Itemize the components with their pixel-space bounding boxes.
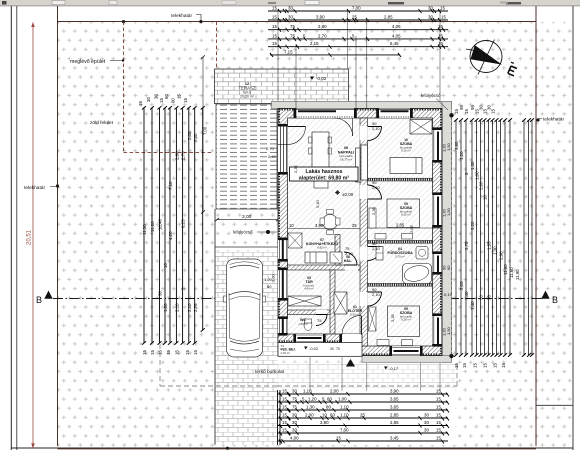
svg-text:10,40: 10,40 [158,218,163,230]
svg-text:4,00: 4,00 [290,436,299,441]
svg-text:-0,02: -0,02 [316,76,327,81]
toolbar strip [0,0,580,6]
window right wall szoba2 [433,192,443,227]
svg-text:7,00: 7,00 [352,6,361,11]
svg-text:4,05: 4,05 [392,33,401,38]
svg-text:3,65: 3,65 [390,397,399,402]
svg-text:2,00: 2,00 [330,389,339,394]
section line B-B [53,298,542,300]
svg-text:lefolyócső: lefolyócső [233,230,253,235]
paper border right [572,6,574,450]
svg-text:7,10: 7,10 [168,181,173,190]
svg-text:2,85: 2,85 [390,413,399,418]
bottom dim ticks [279,393,449,444]
level marker 0,00 [335,190,354,197]
svg-text:2,40: 2,40 [268,154,277,159]
svg-text:30: 30 [288,6,293,11]
svg-text:60: 60 [267,284,272,289]
svg-text:20,51: 20,51 [27,229,33,245]
red property dim line 20,51 [31,22,35,448]
svg-text:15: 15 [272,24,277,29]
interior dim row nappali [288,228,361,230]
svg-text:2,10: 2,10 [372,246,381,251]
svg-text:30: 30 [487,295,492,300]
svg-text:3,90: 3,90 [320,420,329,425]
svg-text:2,10: 2,10 [372,126,381,131]
interior wall konyha/hal vertical [335,235,340,266]
svg-text:5,40: 5,40 [315,199,320,208]
svg-text:2,70: 2,70 [318,33,327,38]
svg-text:60: 60 [164,94,169,99]
telekhatar top boundary [58,21,537,23]
svg-text:4,20: 4,20 [168,231,173,240]
svg-text:3,90: 3,90 [316,15,325,20]
door szoba2 [368,185,382,199]
svg-text:15: 15 [166,350,171,355]
telekhatar right boundary [535,6,537,446]
door arcs interior [316,127,382,326]
svg-text:30: 30 [154,94,159,99]
svg-text:30: 30 [158,291,163,296]
svg-text:15: 15 [185,350,190,355]
svg-text:15: 15 [454,363,459,368]
svg-text:2,00: 2,00 [187,131,192,140]
svg-text:telekhatár: telekhatár [543,117,564,123]
window left wall tar [278,268,288,301]
svg-text:1,50 m²: 1,50 m² [298,322,308,326]
lakas hasznos label box [290,167,359,181]
svg-text:15: 15 [436,436,441,441]
wall pocket nappali/szoba1 [361,145,368,180]
dimension ticks [282,9,434,443]
wardrobe szoba3 [369,307,377,331]
svg-text:2,10: 2,10 [372,292,381,297]
svg-text:11,00: 11,00 [503,264,508,275]
bed szoba3 [388,306,420,337]
paving boundary dashed [160,344,457,386]
door wc [316,315,327,326]
svg-text:15: 15 [272,6,277,11]
bathtub [403,264,432,284]
terrace level marker [310,76,327,81]
eaves band top [272,101,452,108]
svg-text:15: 15 [282,397,287,402]
bottom border [11,447,573,449]
svg-text:meglévő épület: meglévő épület [70,59,106,65]
bottom extension lines [310,357,440,391]
paper border line left 1 [10,6,12,450]
svg-text:térkő burkolat: térkő burkolat [255,369,285,375]
eaves band right [442,101,452,362]
svg-text:1,10: 1,10 [340,405,349,410]
svg-text:7,00: 7,00 [203,126,208,135]
svg-text:2,85: 2,85 [409,224,414,233]
svg-text:15: 15 [436,413,441,418]
window right wall szoba3 [433,313,443,346]
svg-text:3,45: 3,45 [390,436,399,441]
eaves band bottom [362,356,452,363]
svg-text:lefolyócső: lefolyócső [421,93,441,98]
svg-text:15: 15 [150,350,155,355]
right dimension block vertical lines [456,120,532,355]
svg-text:15: 15 [464,109,469,114]
svg-text:30: 30 [424,420,429,425]
svg-text:2,35: 2,35 [293,164,298,173]
svg-text:15: 15 [174,350,179,355]
svg-text:2,10: 2,10 [187,303,192,312]
svg-text:15: 15 [436,420,441,425]
bottom dimension block background [278,388,456,445]
left dim arrows top [142,106,205,345]
svg-text:4,05: 4,05 [392,24,401,29]
interior wall tar/eloter vertical [330,270,335,346]
svg-text:15: 15 [282,420,287,425]
svg-text:1,00: 1,00 [475,171,480,180]
window bottom wall szoba3 [389,346,422,356]
svg-text:7,00: 7,00 [340,428,349,433]
bottom dimension block [278,390,449,445]
desk szoba2 [369,208,376,228]
interior wall tar/wc [288,310,331,315]
door furdo [368,247,382,261]
svg-text:30: 30 [292,420,297,425]
svg-text:15: 15 [193,350,198,355]
svg-text:zöld felület: zöld felület [90,120,114,126]
svg-text:0,17: 0,17 [444,292,453,297]
top dim ticks [270,9,445,57]
svg-text:telekhatár: telekhatár [24,185,45,191]
svg-text:1,20: 1,20 [459,151,464,160]
svg-text:5,45: 5,45 [390,41,399,46]
svg-text:1,10: 1,10 [340,413,349,418]
boundary marker dots [56,20,540,450]
svg-text:11,60: 11,60 [509,267,514,278]
svg-text:2,85: 2,85 [384,15,393,20]
svg-text:15: 15 [282,413,287,418]
svg-text:15: 15 [491,109,496,114]
svg-text:2,85: 2,85 [396,223,405,228]
svg-text:1,20: 1,20 [308,397,317,402]
svg-text:10: 10 [322,413,327,418]
svg-text:60: 60 [446,265,451,270]
svg-text:15: 15 [177,94,182,99]
svg-text:1,00: 1,00 [338,397,347,402]
door labels [293,121,414,323]
telekhatar left boundary [57,6,59,446]
svg-text:15: 15 [462,363,467,368]
wardrobe szoba1 [410,120,432,135]
svg-text:15: 15 [501,363,506,368]
meglevo epulet dashed outline [124,22,217,153]
svg-text:2,15: 2,15 [310,41,319,46]
south wall left section [278,334,362,356]
svg-text:8,26 m²: 8,26 m² [401,213,411,217]
svg-text:15: 15 [282,389,287,394]
room labels [298,138,413,326]
svg-text:15: 15 [272,15,277,20]
furdo basin [416,247,428,260]
svg-text:9,26 m²: 9,26 m² [401,149,411,153]
svg-text:2,05: 2,05 [459,281,464,290]
house outer wall [278,109,442,356]
svg-text:15: 15 [436,397,441,402]
interior wall szoba2/furdo [368,240,433,243]
svg-text:30: 30 [330,347,334,351]
window right wall szoba1 [433,127,443,162]
svg-text:-0,02: -0,02 [309,346,319,351]
svg-text:1,00: 1,00 [163,303,168,312]
svg-text:30: 30 [424,428,429,433]
svg-text:±0,00: ±0,00 [342,192,354,197]
window top wall terrace slider [294,109,357,119]
telekhatar bottom boundary [58,448,537,450]
terrace brick band top [215,69,349,104]
svg-text:60: 60 [330,413,335,418]
door szoba1 [368,127,382,141]
window top wall szoba1 [376,109,413,119]
downpipe dots [449,113,453,117]
section marker B left [44,291,52,299]
terrace door-window left wall [278,124,306,175]
north arrow [466,40,518,76]
svg-text:15: 15 [158,350,163,355]
svg-text:1,50: 1,50 [446,142,451,151]
svg-text:30: 30 [146,97,151,102]
svg-text:6,25: 6,25 [181,219,186,228]
svg-text:75: 75 [290,24,295,29]
interior wall konyha/tar [288,265,361,270]
entry door gap [339,315,361,342]
interior wall furdo/szoba3 [368,283,433,286]
svg-text:75: 75 [292,405,297,410]
svg-text:15: 15 [142,350,147,355]
svg-text:80: 80 [326,405,331,410]
interior dim row szoba2 [368,227,441,229]
svg-text:2,10: 2,10 [345,251,354,256]
svg-text:1,30: 1,30 [470,161,475,170]
window right wall furdo [433,251,443,274]
svg-text:30: 30 [288,15,293,20]
svg-text:15: 15 [440,6,445,11]
svg-text:11,00: 11,00 [150,221,155,232]
svg-text:75: 75 [290,33,295,38]
entry arrow [346,359,355,367]
door top wall right leaf [335,118,353,136]
svg-text:2,70: 2,70 [266,146,275,151]
svg-text:2,70: 2,70 [464,241,469,250]
konyha corner sink [288,233,302,248]
svg-text:1,60: 1,60 [454,141,459,150]
furniture nappali table [312,132,329,170]
svg-text:10: 10 [483,195,488,200]
paving under entry strip [278,363,458,389]
furniture nappali round table [323,215,338,230]
bed szoba1 [390,158,422,174]
door gaps white [316,126,368,315]
svg-text:60: 60 [170,98,175,103]
kitchen counter [305,252,327,263]
house interior floor [288,118,433,346]
door szoba3 [368,292,382,306]
svg-text:Lakás hasznos: Lakás hasznos [306,169,343,175]
svg-text:2,35: 2,35 [390,313,395,322]
window size labels right wall [264,142,453,371]
svg-text:15: 15 [282,405,287,410]
svg-text:30: 30 [292,428,297,433]
svg-text:3,20: 3,20 [470,221,475,230]
svg-text:2,49 m²: 2,49 m² [281,351,291,355]
svg-text:3,00: 3,00 [242,214,252,220]
insulation dotted band [279,110,441,355]
svg-text:2,10: 2,10 [372,185,381,190]
svg-text:2,00: 2,00 [479,181,484,190]
svg-text:1,50: 1,50 [446,326,451,335]
svg-text:5,70 m²: 5,70 m² [395,255,405,259]
svg-text:7,15: 7,15 [284,49,293,54]
svg-text:15: 15 [483,363,488,368]
interior wall szoba1/szoba2 [368,178,433,181]
furdo radiator [376,247,383,261]
svg-text:15: 15 [272,33,277,38]
svg-text:10: 10 [289,223,294,228]
svg-text:11,90: 11,90 [515,269,520,280]
svg-text:8,82 m²: 8,82 m² [317,246,327,250]
bed szoba2 [387,199,420,228]
svg-text:2,80: 2,80 [318,24,327,29]
svg-text:15: 15 [282,428,287,433]
window left wall konyha [278,238,288,262]
svg-text:HÁL.: HÁL. [344,258,352,263]
title block divider [536,404,573,406]
svg-text:1,40: 1,40 [470,301,475,310]
svg-text:7,00: 7,00 [193,133,198,142]
door hal [344,252,357,265]
svg-text:8,26 m²: 8,26 m² [401,318,411,322]
svg-text:30: 30 [479,295,484,300]
svg-text:1,80: 1,80 [271,273,276,282]
svg-text:2,80: 2,80 [174,151,179,160]
svg-text:15: 15 [436,428,441,433]
svg-text:3,90: 3,90 [315,223,324,228]
svg-text:10: 10 [163,263,168,268]
paper border line left 2 [16,6,18,450]
terrace height dim line 7,00 [202,57,204,212]
svg-text:75: 75 [317,318,322,323]
wc toilet [304,320,312,331]
window wc south [293,334,325,343]
svg-text:15: 15 [473,363,478,368]
svg-text:15: 15 [436,405,441,410]
svg-text:2,75: 2,75 [181,151,186,160]
svg-text:3,90: 3,90 [390,389,399,394]
svg-text:3,65: 3,65 [390,405,399,410]
svg-text:15: 15 [436,389,441,394]
svg-text:15: 15 [441,15,446,20]
svg-text:30: 30 [424,413,429,418]
svg-text:2,35: 2,35 [371,206,376,215]
svg-text:1,50: 1,50 [446,207,451,216]
svg-text:telekhatár: telekhatár [171,13,192,19]
svg-text:2,10: 2,10 [174,303,179,312]
svg-text:1,30: 1,30 [493,246,498,255]
svg-text:2,85: 2,85 [390,420,399,425]
furniture sofa right of nappali [356,148,361,182]
svg-text:5,90 m²: 5,90 m² [350,313,360,317]
left dim labels [138,94,198,355]
tar wardrobe [288,296,321,306]
eloter closet [334,292,347,314]
left dimension block vertical lines [144,108,203,343]
wc window left wall [278,316,288,335]
svg-text:15: 15 [272,41,277,46]
svg-text:30: 30 [292,413,297,418]
svg-text:B: B [36,295,42,305]
svg-text:18,73 m²: 18,73 m² [340,157,352,161]
svg-text:1,30: 1,30 [306,405,315,410]
svg-text:alapterület: 69,80 m²: alapterület: 69,80 m² [299,175,349,181]
svg-text:15: 15 [183,98,188,103]
top dimension block [268,11,448,55]
svg-text:2,75: 2,75 [193,303,198,312]
svg-text:75: 75 [292,397,297,402]
top dim extension lines [278,9,440,108]
svg-text:-0,17: -0,17 [389,366,399,371]
svg-text:4,94 m²: 4,94 m² [304,287,314,291]
terrace deck left [216,104,277,209]
svg-text:11,30: 11,30 [142,224,147,235]
svg-text:30: 30 [292,389,297,394]
svg-text:B: B [552,295,558,305]
svg-text:15: 15 [493,363,498,368]
entry porch FED.BEJ [278,343,362,357]
svg-text:29,30 m²: 29,30 m² [240,95,255,99]
svg-text:1,40: 1,40 [464,291,469,300]
svg-text:75: 75 [336,347,340,351]
car [223,259,265,357]
interior wall vertical main [360,118,368,346]
driveway paving [215,250,278,445]
svg-text:1,55: 1,55 [487,241,492,250]
svg-text:15: 15 [138,101,143,106]
svg-text:2,90: 2,90 [499,251,504,260]
section marker B right [541,291,549,299]
svg-text:25: 25 [352,223,357,228]
